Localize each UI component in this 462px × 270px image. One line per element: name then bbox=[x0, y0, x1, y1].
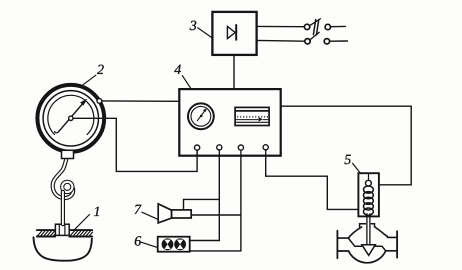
terminal 1 of box 4 bbox=[195, 145, 200, 156]
solenoid actuator box 5 bbox=[358, 173, 379, 216]
label 1 leader line bbox=[75, 215, 90, 230]
box 4 meter needle bbox=[197, 109, 206, 121]
valve right flange bbox=[396, 231, 398, 258]
valve left flange bbox=[336, 231, 338, 259]
solenoid plunger stem upper bbox=[368, 173, 370, 180]
wire box 4 right side to solenoid top bbox=[281, 106, 411, 185]
gauge center pivot bbox=[69, 116, 73, 120]
plug lower contact slant bbox=[309, 32, 319, 40]
svg-text:6: 6 bbox=[134, 234, 141, 249]
terminal 4 of box 4 bbox=[263, 145, 268, 156]
valve plug arrow bbox=[362, 245, 375, 256]
siphon loop tube from vessel to gauge bbox=[53, 158, 73, 224]
hatched plate on vessel bbox=[37, 230, 93, 236]
box 4 meter inner circle bbox=[191, 106, 211, 126]
box 4 meter outer circle bbox=[188, 103, 214, 129]
valve seat right line and slant bbox=[373, 246, 386, 251]
plug connector left pins bbox=[304, 24, 309, 29]
gauge rim contact terminal bbox=[97, 99, 102, 104]
wire gauge contact to controller box 4 bbox=[102, 100, 179, 102]
diode symbol in box 3 bbox=[227, 25, 236, 40]
gauge scale arc bbox=[48, 95, 94, 134]
valve neck arc right bbox=[375, 227, 388, 237]
box 4 recorder scale window bbox=[235, 107, 269, 125]
wire box 3 to plug upper bbox=[257, 25, 304, 27]
wire gauge pivot to terminal 1 of box 4 bbox=[73, 118, 197, 171]
svg-text:1: 1 bbox=[94, 205, 101, 220]
gauge needle bbox=[55, 99, 87, 133]
wire terminal 4 to solenoid valve 5 bbox=[266, 156, 359, 210]
valve stem double line bbox=[367, 214, 370, 245]
label 4 leader line bbox=[182, 76, 191, 89]
label 2 leader line bbox=[83, 75, 96, 85]
plug upper contact slant bbox=[309, 19, 320, 26]
gauge inner circle bbox=[43, 91, 98, 146]
signal lamp box 6 bbox=[158, 237, 190, 252]
svg-text:5: 5 bbox=[344, 153, 351, 168]
mains lead upper bbox=[331, 25, 346, 27]
svg-text:7: 7 bbox=[134, 203, 142, 218]
socket right pins bbox=[325, 24, 330, 29]
wire branch to horn top bbox=[184, 199, 220, 209]
wire box 3 to plug lower bbox=[257, 39, 304, 42]
controller box 4 bbox=[179, 89, 280, 156]
label 5 leader line bbox=[353, 163, 361, 173]
solenoid armature top loop bbox=[366, 180, 372, 186]
horn 7 bbox=[158, 204, 191, 223]
plug connector double bars bbox=[313, 20, 318, 35]
pressure gauge 2 outer ring bbox=[37, 85, 104, 152]
wire terminal 3 down to lamp bottom wire bbox=[240, 156, 242, 251]
gauge bottom stem bbox=[62, 150, 74, 158]
terminal 3 of box 4 bbox=[238, 145, 243, 156]
label 7 leader line bbox=[142, 212, 158, 219]
svg-text:2: 2 bbox=[97, 63, 104, 78]
valve neck arc left bbox=[348, 227, 361, 238]
wire lamp box to terminal 3 vertical bbox=[190, 250, 241, 252]
svg-text:4: 4 bbox=[174, 63, 181, 78]
valve bonnet flange bbox=[359, 224, 374, 227]
wire box 3 to box 4 bbox=[233, 55, 235, 89]
label 6 leader line bbox=[142, 242, 157, 247]
wire horn to terminals 2 and 3 verticals bbox=[191, 214, 241, 216]
valve lower pipe and bottom bulge bbox=[337, 251, 397, 263]
mains lead lower bbox=[330, 40, 348, 42]
label 3 leader line bbox=[198, 28, 212, 38]
valve seat left slant and line bbox=[348, 238, 362, 246]
valve upper pipe lines bbox=[337, 236, 397, 239]
terminal 2 of box 4 bbox=[217, 145, 222, 156]
wire terminal 2 down to lamp wire bbox=[218, 156, 220, 241]
power unit box 3 bbox=[212, 12, 256, 55]
solenoid coil bbox=[364, 186, 374, 215]
pressure vessel bowl (item 1 assembly) bbox=[34, 237, 92, 260]
gauge mounting fitting on plate bbox=[55, 224, 69, 235]
svg-text:3: 3 bbox=[189, 19, 197, 34]
wire lamp box to terminal 2 vertical bbox=[190, 240, 220, 242]
